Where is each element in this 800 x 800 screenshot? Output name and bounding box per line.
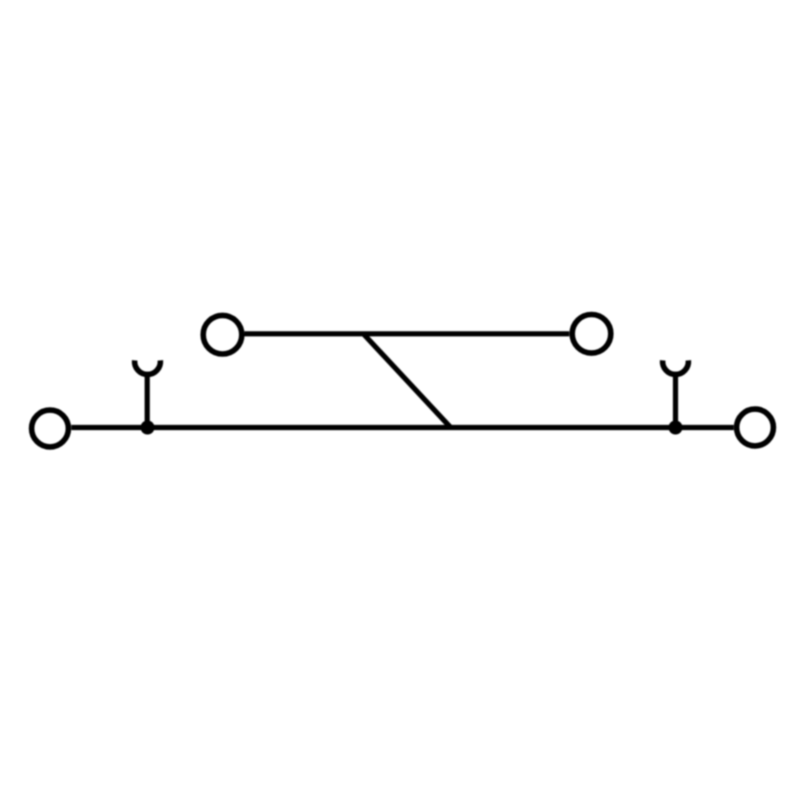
test socket TP2 (cup symbol, right)	[663, 360, 689, 374]
wire (diagonal cross-connection upper rail to lower rail)	[364, 335, 450, 427]
node junction dot (left test tap on lower rail)	[141, 421, 155, 435]
terminal circle 1 (lower-left connection point)	[32, 410, 69, 447]
node junction dot (right test tap on lower rail)	[669, 421, 683, 435]
terminal circle 4 (lower-right connection point)	[737, 409, 774, 446]
wire (lower rail, left circle to right circle)	[71, 425, 734, 430]
wire (right test-socket stem)	[673, 373, 678, 428]
terminal circle 2 (upper-left connection point)	[203, 315, 242, 354]
wire (left test-socket stem)	[145, 373, 150, 428]
terminal circle 3 (upper-right connection point)	[572, 315, 611, 354]
test socket TP1 (cup symbol, left)	[135, 360, 161, 374]
wire (upper rail, left circle to right circle)	[245, 331, 570, 336]
